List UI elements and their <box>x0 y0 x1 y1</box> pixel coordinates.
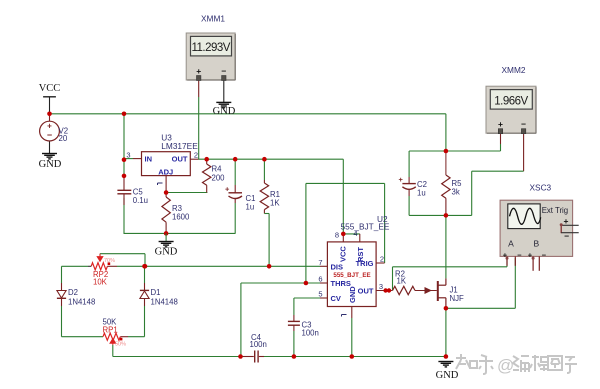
wire 555 OUT pin3 <box>376 290 392 292</box>
wire CV line to C3 <box>320 297 327 299</box>
wire XMM1 minus to GND <box>223 80 225 102</box>
svg-text:B: B <box>533 239 539 249</box>
wire C2/R5 bottom line <box>409 214 472 216</box>
resistor R1 <box>263 180 265 183</box>
wire R1 top lead <box>263 159 265 180</box>
VCC power symbol <box>49 97 51 114</box>
source V2 <box>49 114 51 121</box>
svg-text:200: 200 <box>212 174 226 183</box>
node junction dots top rail <box>47 112 52 117</box>
svg-text:4: 4 <box>353 229 357 238</box>
svg-text:1u: 1u <box>417 189 426 198</box>
wire C1 top lead <box>234 159 236 185</box>
wire THRS line <box>241 282 320 284</box>
svg-text:D2: D2 <box>68 288 78 297</box>
capacitor C5 <box>123 176 125 190</box>
capacitor C4 <box>248 356 254 358</box>
wire OUT rail drop to 555 VCC <box>342 159 344 234</box>
svg-text:3: 3 <box>379 282 383 291</box>
svg-text:+: + <box>196 66 201 76</box>
oscilloscope XSC3 <box>500 200 572 256</box>
svg-text:A: A <box>508 239 514 249</box>
wire XMM2 plus probe <box>500 134 502 144</box>
svg-text:100n: 100n <box>250 340 267 349</box>
svg-text:+: + <box>498 119 503 129</box>
wire C2 left drop <box>408 151 410 177</box>
svg-text:7: 7 <box>318 258 322 267</box>
wire J1 source to scope A minus <box>446 307 515 309</box>
wire R1 bottom jog to DIS net <box>263 210 265 214</box>
node dots OUT rail <box>204 157 209 162</box>
svg-text:@: @ <box>497 356 514 375</box>
wire THRS riser from bottom rail <box>240 283 242 357</box>
pin 1 ADJ wire and rotated label <box>165 176 167 193</box>
svg-text:1u: 1u <box>246 203 255 212</box>
svg-text:6: 6 <box>318 275 322 284</box>
ground bottom right <box>444 354 449 359</box>
svg-text:+: + <box>225 185 230 194</box>
svg-text:D1: D1 <box>151 288 161 297</box>
svg-text:CV: CV <box>331 294 341 303</box>
watermark zhihu <box>456 354 493 374</box>
wire VCC rail <box>50 113 446 115</box>
svg-text:1N4148: 1N4148 <box>68 298 95 307</box>
wire vertical V2 to LM317 IN / C5 branch <box>123 114 125 176</box>
wire J1 source down to ground rail <box>445 308 447 356</box>
svg-text:XMM1: XMM1 <box>201 14 225 24</box>
svg-text:1600: 1600 <box>172 213 190 222</box>
resistor R4 <box>206 159 208 164</box>
svg-text:20: 20 <box>59 134 68 143</box>
svg-text:10K: 10K <box>93 277 108 286</box>
svg-text:555_BJT_EE: 555_BJT_EE <box>341 222 390 232</box>
potentiometer RP2 <box>91 263 107 270</box>
svg-text:5: 5 <box>318 290 322 299</box>
capacitor C2 polarized <box>408 177 410 184</box>
wire LM317 OUT rail <box>190 158 198 160</box>
svg-text:OUT: OUT <box>172 155 188 164</box>
wire 555 GND pin1 down <box>351 307 353 319</box>
multimeter XMM2 <box>486 86 536 133</box>
wire DIS net horizontal <box>62 265 89 267</box>
op-amp U3 LM317EE regulator box <box>142 152 191 176</box>
svg-text:+: + <box>564 216 569 226</box>
capacitor C3 <box>293 315 295 321</box>
wire VCC rail right drop to C2/R5 top <box>445 114 447 151</box>
svg-text:70%: 70% <box>104 258 115 264</box>
wire mid ground rail <box>124 232 236 234</box>
svg-text:−: − <box>221 66 226 76</box>
svg-text:50%: 50% <box>115 342 126 348</box>
svg-text:−: − <box>517 251 522 260</box>
svg-text:DIS: DIS <box>331 262 344 271</box>
wire C2 bottom <box>408 196 410 215</box>
wire C1 bottom to mid rail <box>234 203 236 233</box>
svg-text:Ext Trig: Ext Trig <box>542 206 568 215</box>
svg-text:−: − <box>521 119 526 129</box>
svg-text:NJF: NJF <box>450 294 465 303</box>
potentiometer RP1 <box>103 333 120 340</box>
svg-text:RP1: RP1 <box>103 326 118 335</box>
svg-text:11.293V: 11.293V <box>191 42 230 54</box>
svg-text:GND: GND <box>348 286 357 303</box>
wire TRIG pin2 <box>376 262 385 264</box>
wire THRS-TRIG jog up/over/down <box>305 183 307 283</box>
svg-text:OUT: OUT <box>358 287 374 296</box>
capacitor C1 polarized <box>234 185 236 193</box>
resistor R2 <box>393 286 416 294</box>
wire bottom ground rail <box>241 356 249 358</box>
resistor R5 <box>445 151 447 175</box>
svg-text:GND: GND <box>155 247 178 258</box>
wire D2 top lead <box>61 266 63 283</box>
wire RP1 wiper drop <box>112 345 114 357</box>
wire bottom wire D2 to RP1 to D1 <box>62 336 104 338</box>
wire C3 bottom <box>293 331 295 357</box>
node dots on IN branch <box>122 157 127 162</box>
ground under V2 <box>42 153 57 155</box>
wire J1 drain up to C2/R5 bottom <box>445 215 447 278</box>
svg-text:1N4148: 1N4148 <box>151 298 178 307</box>
svg-text:555_BJT_EE: 555_BJT_EE <box>333 272 370 279</box>
timer U2 555_BJT_EE box <box>327 242 376 307</box>
multimeter XMM1 <box>186 33 235 80</box>
svg-text:RST: RST <box>356 247 365 262</box>
wire XMM1 plus probe <box>198 80 200 97</box>
svg-text:1K: 1K <box>270 199 280 208</box>
svg-text:2: 2 <box>194 151 198 160</box>
wire D2 bottom lead <box>61 299 63 306</box>
svg-text:XSC3: XSC3 <box>530 183 552 193</box>
svg-text:2: 2 <box>380 255 384 264</box>
diode D1 1N4148 <box>140 289 149 291</box>
svg-text:8: 8 <box>335 231 339 240</box>
wire D1 vertical <box>144 266 146 283</box>
svg-text:3: 3 <box>126 151 130 160</box>
svg-text:+: + <box>399 175 404 184</box>
svg-text:GND: GND <box>213 106 236 117</box>
svg-text:R4: R4 <box>212 165 223 174</box>
wire XMM2 minus probe <box>523 134 525 171</box>
wire ADJ node horizontal to R4 bottom <box>166 192 207 194</box>
svg-text:XMM2: XMM2 <box>502 65 526 75</box>
svg-text:1K: 1K <box>397 277 407 286</box>
wire RP2 wiper loop <box>99 254 101 262</box>
svg-text:−: − <box>47 130 52 140</box>
wire C2/R5 top line <box>409 150 500 152</box>
svg-text:3k: 3k <box>452 188 460 197</box>
wire C5 bottom to mid rail <box>123 198 125 233</box>
svg-text:ADJ: ADJ <box>158 168 173 177</box>
ground under XMM1 <box>216 101 231 103</box>
svg-text:LM317EE: LM317EE <box>161 141 198 151</box>
svg-text:−: − <box>542 251 547 260</box>
svg-text:100n: 100n <box>302 329 319 338</box>
transistor J1 NJF <box>437 281 439 301</box>
resistor R3 <box>165 193 167 198</box>
svg-text:VCC: VCC <box>339 246 348 262</box>
wire LM317 IN pin3 <box>124 158 133 160</box>
svg-text:0.1u: 0.1u <box>133 196 148 205</box>
svg-text:IN: IN <box>145 155 153 164</box>
diode D2 1N4148 <box>57 291 66 299</box>
svg-text:1.966V: 1.966V <box>494 95 528 107</box>
svg-text:VCC: VCC <box>39 83 61 94</box>
svg-text:GND: GND <box>39 159 62 170</box>
wire OUT to scope A jog <box>392 267 394 291</box>
wire 555 VCC/RST supply tie <box>343 233 360 235</box>
svg-text:GND: GND <box>436 370 459 381</box>
ground mid rail <box>165 233 167 241</box>
